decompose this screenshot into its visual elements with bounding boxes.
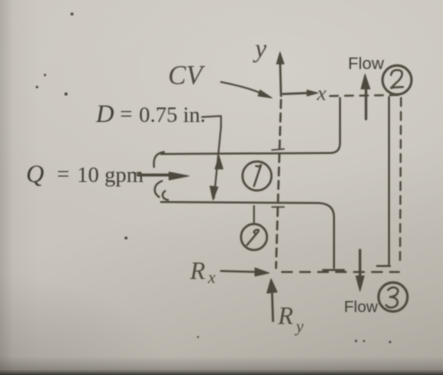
leader from middle circle to pipe wall <box>253 206 255 223</box>
svg-text:y: y <box>294 317 304 336</box>
svg-text:R: R <box>277 303 293 330</box>
CV boundary dashed left <box>276 100 281 268</box>
label CV <box>168 60 206 90</box>
svg-text:10 gpm: 10 gpm <box>77 162 144 187</box>
inlet pipe top wall with elbow up <box>161 98 340 154</box>
y axis <box>280 58 281 96</box>
svg-text:Q: Q <box>26 161 44 188</box>
inlet pipe top wall end curl <box>154 152 164 167</box>
right pipe wall foot <box>377 265 390 267</box>
Rx arrow <box>221 271 258 272</box>
svg-text:Flow: Flow <box>344 299 378 316</box>
label Rx <box>189 258 216 287</box>
CV boundary dashed right <box>400 98 401 264</box>
digit 3 <box>386 287 398 307</box>
inlet flow arrow Q <box>138 174 172 177</box>
CV leader arrow <box>221 82 263 94</box>
leader from D label to dimension arrow <box>202 116 221 127</box>
lower elbow outlet foot <box>323 269 344 271</box>
flow arrow down at section 3 <box>359 250 362 278</box>
inlet pipe bottom wall end curl <box>155 181 168 200</box>
svg-text:R: R <box>189 258 205 285</box>
svg-text:CV: CV <box>168 60 206 90</box>
digit 2 top right <box>391 70 403 88</box>
tick at section 1 top wall crossing <box>272 149 284 150</box>
pipe diameter dimension arrow <box>214 127 221 198</box>
label Ry <box>277 303 304 336</box>
CV boundary dashed bottom <box>282 271 399 273</box>
section label 1 circle <box>243 162 272 191</box>
section label 2 circle top right <box>383 66 412 95</box>
label D = 0.75 in. <box>95 101 206 128</box>
svg-text:0.75 in.: 0.75 in. <box>139 102 206 127</box>
CV boundary dashed top <box>330 95 402 96</box>
svg-text:Flow: Flow <box>348 54 385 73</box>
section label 2 middle circle <box>241 224 267 250</box>
svg-text:=: = <box>57 161 69 186</box>
label Q = 10 gpm <box>26 161 144 188</box>
svg-text:y: y <box>252 34 267 63</box>
digit 2 middle <box>247 230 259 245</box>
svg-text:=: = <box>120 101 132 126</box>
x axis <box>283 93 308 94</box>
svg-text:x: x <box>316 81 327 105</box>
label Flow bottom <box>344 299 378 316</box>
tick at section 1 bottom wall crossing <box>272 206 284 208</box>
svg-text:D: D <box>95 101 114 128</box>
label y <box>252 34 267 63</box>
right pipe wall <box>388 97 390 265</box>
label x <box>316 81 327 105</box>
label Flow top <box>348 54 385 73</box>
Ry arrow <box>272 290 273 321</box>
inlet pipe bottom wall with elbow down <box>161 202 334 268</box>
section label 3 circle <box>379 283 408 312</box>
paper speckles <box>36 13 391 344</box>
digit 1 <box>254 165 261 186</box>
flow arrow up at section 2 <box>365 86 368 119</box>
svg-text:x: x <box>207 268 216 287</box>
